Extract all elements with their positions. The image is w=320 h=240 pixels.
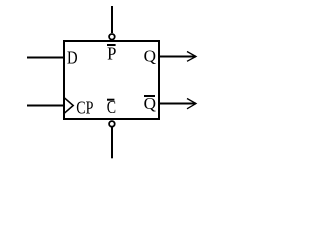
wire CP clock input <box>27 105 63 107</box>
clock edge-trigger chevron <box>65 98 74 113</box>
wire D input <box>27 57 63 59</box>
pin label Q-bar (Q with overline) <box>144 94 156 113</box>
arrowhead Q-bar output <box>187 99 196 109</box>
pin label PR (P with overline) <box>107 44 116 64</box>
wire CLR input (bottom vertical) <box>111 127 113 158</box>
arrowhead Q output <box>187 52 196 62</box>
wire Q-bar output <box>160 103 196 105</box>
svg-text:P: P <box>107 44 116 64</box>
active-low bubble on CLR pin <box>109 121 115 127</box>
svg-text:Q: Q <box>144 46 156 65</box>
svg-text:D: D <box>67 48 78 68</box>
wire Q output <box>160 56 196 58</box>
svg-text:CP: CP <box>76 98 93 118</box>
active-low bubble on PR pin <box>109 34 115 40</box>
pin label CLR (C with overline) <box>107 97 116 117</box>
wire PR input (top vertical) <box>111 6 113 33</box>
flip-flop U1 body <box>64 41 159 119</box>
